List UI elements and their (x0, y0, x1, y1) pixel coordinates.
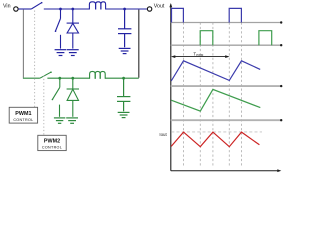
ground (phase2 low-side switch) (54, 118, 65, 123)
axis PWM2 voltage (row 2) (171, 44, 283, 46)
svg-text:Vout: Vout (154, 4, 165, 10)
ground (diode D2) (66, 118, 78, 123)
node D (phase2 output junction) (122, 77, 125, 80)
gridline t2 (dashed) (199, 23, 201, 168)
axis vertical (main ordinate) (169, 3, 172, 171)
svg-text:Vin: Vin (3, 4, 11, 10)
wire L2 to output tie (105, 77, 139, 79)
axis IL2 current (row 4) (171, 119, 283, 121)
gridline t3 (dashed) (212, 23, 214, 168)
gridline t4 (dashed) (228, 23, 230, 168)
gridline t1 (dashed) (183, 23, 185, 168)
wire Vin to switch S1 (18, 8, 31, 10)
svg-text:CONTROL: CONTROL (42, 146, 62, 150)
gridline t5 (dashed) (241, 23, 243, 168)
inductor L1 (89, 2, 105, 10)
diode D1 (phase 1 freewheel) (67, 9, 79, 49)
wire L1 to Vout (106, 8, 147, 10)
terminal Vout (147, 7, 151, 11)
dimension Tpwm arrow (171, 55, 230, 58)
ground (capacitor C1) (119, 48, 131, 53)
switch S2 (low-side, phase 1) (55, 9, 61, 49)
waveform IL2 triangle (green) (171, 89, 260, 111)
svg-text:PWM: PWM (196, 53, 204, 57)
node A (phase1 switch node, junction dots) (59, 8, 74, 11)
label Vout (154, 4, 165, 10)
ground (phase1 low-side switch) (55, 50, 67, 56)
svg-text:CONTROL: CONTROL (13, 118, 33, 122)
waveform PWM2 pulses (green) (200, 31, 272, 46)
block PWM2 CONTROL (38, 135, 66, 150)
wire control PWM1 (dotted) (34, 11, 36, 108)
wire rail to switch S3 (23, 77, 40, 79)
label Vin (3, 4, 11, 10)
inductor L2 (90, 71, 106, 78)
label Tpwm (193, 51, 203, 57)
wire output tie (phase2 output up to Vout) (138, 10, 140, 78)
axis PWM1 voltage (row 1) (171, 21, 283, 23)
gridline Iout peak level (dashed horizontal) (171, 131, 262, 133)
terminal Vin (14, 7, 18, 11)
svg-text:Iout: Iout (159, 132, 167, 137)
node B (phase1 output junction) (123, 8, 126, 11)
waveform IL1 triangle (blue) (171, 61, 260, 81)
waveform PWM1 pulses (blue) (172, 8, 242, 22)
diode D2 (phase 2 freewheel) (67, 78, 79, 117)
waveform Iout ripple (red) (171, 132, 259, 147)
capacitor C2 (117, 78, 130, 111)
ground (capacitor C2) (118, 112, 130, 117)
wire control PWM2 (dotted) (43, 76, 45, 136)
axis time (row 5, bottom) (171, 169, 281, 172)
ground (diode D1) (67, 50, 79, 56)
switch S1 (high-side, phase 1) (31, 2, 89, 9)
svg-text:PWM2: PWM2 (44, 139, 60, 145)
switch S3 (high-side, phase 2) (40, 71, 90, 78)
wire input rail (gray, Vin down to phase 2) (22, 10, 24, 78)
switch S4 (low-side, phase 2) (52, 78, 60, 117)
label Iout (159, 132, 167, 137)
capacitor C1 (118, 9, 131, 47)
svg-text:PWM1: PWM1 (15, 111, 31, 117)
block PWM1 CONTROL (9, 107, 37, 123)
axis IL1 current (row 3) (171, 85, 283, 87)
node C (phase2 switch node, junction dots) (58, 77, 74, 80)
